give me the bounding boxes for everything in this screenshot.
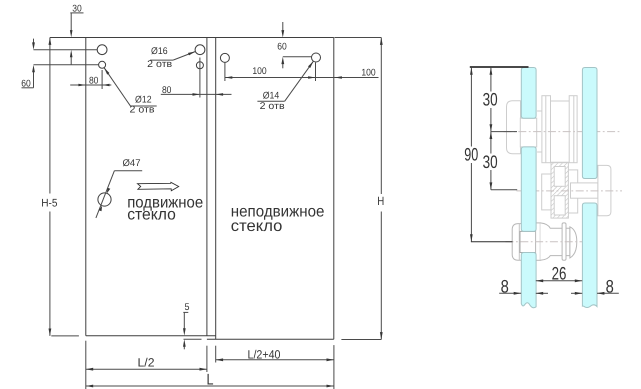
dimension 90 (464, 67, 478, 241)
upper roller left flange (542, 96, 551, 163)
svg-text:Ø47: Ø47 (123, 158, 141, 169)
hole Ø12 left (99, 61, 106, 68)
upper roller right flange (569, 96, 577, 163)
dimension 100 holes (225, 63, 379, 82)
svg-text:26: 26 (552, 264, 567, 284)
svg-text:30: 30 (483, 152, 498, 172)
svg-text:100: 100 (361, 68, 376, 79)
lower roller left cap (512, 224, 523, 261)
extension line glass top (470, 66, 529, 68)
screw hatched body (551, 163, 568, 218)
dimension L/2 (86, 356, 207, 371)
svg-text:L: L (207, 372, 214, 389)
movable glass panel outline (50, 38, 334, 336)
label Ø14 2 holes (257, 61, 313, 112)
svg-text:100: 100 (252, 66, 267, 77)
upper clamp neck edge lines (537, 111, 542, 152)
svg-text:L/2: L/2 (138, 356, 155, 370)
lower roller neck (520, 231, 536, 252)
svg-text:80: 80 (162, 85, 172, 96)
extension line 90 bottom (471, 241, 513, 243)
dimension 30 lower (483, 132, 498, 190)
svg-text:8: 8 (606, 277, 614, 297)
svg-text:90: 90 (464, 145, 478, 165)
screw right block (568, 170, 577, 213)
text nepodvizhnoe steklo (231, 204, 325, 236)
svg-text:2 отв: 2 отв (260, 101, 285, 112)
dimension H-5 left (41, 38, 57, 336)
dimension 8 right glass (571, 277, 619, 297)
left glass segment 2 (521, 147, 536, 232)
extension line hole row 1 (34, 49, 98, 51)
dimension H right (335, 38, 385, 340)
dimension 8 left glass (499, 277, 548, 297)
hole Ø12 right (196, 62, 203, 69)
svg-text:H-5: H-5 (41, 198, 57, 210)
dimension 80 left (70, 70, 111, 89)
upper clamp left head (507, 101, 521, 154)
hole Ø14 right (312, 53, 321, 62)
label Ø47 with leader (96, 158, 142, 218)
svg-text:8: 8 (501, 277, 509, 297)
svg-text:2 отв: 2 отв (130, 105, 155, 116)
svg-text:стекло: стекло (127, 207, 176, 224)
dimension 26 gap (536, 264, 582, 284)
middle clamp neck (571, 183, 598, 198)
extension line L/2+40 left (215, 346, 217, 363)
label Ø12 2 holes (104, 68, 157, 116)
svg-text:2 отв: 2 отв (147, 59, 172, 70)
svg-text:5: 5 (185, 302, 190, 313)
svg-text:L/2+40: L/2+40 (248, 347, 281, 361)
lower roller ring (562, 223, 566, 260)
centerline middle screw axis (517, 190, 623, 192)
svg-text:Ø16: Ø16 (151, 46, 168, 57)
extension line 30 bottom (491, 189, 517, 191)
lower roller end cap (570, 227, 577, 258)
upper roller hub (547, 101, 570, 162)
extension line bottom left (51, 335, 79, 337)
extension line 30-30 mid (491, 131, 517, 133)
upper clamp neck (520, 118, 536, 147)
extension line L/2 right (206, 346, 208, 372)
dimension 80 right (161, 58, 232, 98)
dimension 60 left (21, 39, 35, 90)
label Ø16 2 holes (147, 46, 195, 70)
screw left block (542, 174, 551, 210)
extension line L right (333, 345, 335, 389)
dimension L/2+40 (216, 347, 334, 361)
hole Ø16 right (195, 45, 205, 55)
fixed glass panel outline (207, 38, 334, 340)
movement direction arrow (138, 182, 179, 191)
dimension 5 bottom (183, 302, 202, 350)
dimension 60 fixed glass (277, 22, 311, 68)
right glass segment 1 (582, 68, 597, 179)
left glass segment 1 (521, 68, 536, 119)
left glass segment 3 with break (521, 253, 536, 308)
svg-text:30: 30 (483, 89, 498, 109)
svg-text:стекло: стекло (231, 218, 283, 235)
svg-text:H: H (377, 194, 384, 208)
hole Ø16 left (97, 45, 107, 55)
text podvizhnoe steklo (127, 195, 203, 224)
svg-text:60: 60 (277, 42, 287, 53)
lower roller glass flange (536, 223, 541, 260)
svg-text:60: 60 (21, 78, 31, 89)
lower roller body (540, 223, 570, 260)
extension line L left (85, 341, 87, 389)
centerline upper roller axis (504, 131, 620, 133)
hole Ø14 left (220, 53, 229, 62)
dimension 30 upper (483, 67, 498, 131)
svg-text:80: 80 (89, 76, 99, 87)
right glass segment 2 with break (582, 203, 597, 308)
middle clamp right head (598, 165, 611, 215)
centerline lower roller axis (506, 241, 588, 243)
dimension 30 top (70, 4, 84, 65)
dimension L (86, 372, 334, 389)
hole Ø47 handle (98, 193, 111, 206)
extension line hole row 2 (34, 64, 99, 66)
svg-text:Ø14: Ø14 (263, 90, 280, 101)
